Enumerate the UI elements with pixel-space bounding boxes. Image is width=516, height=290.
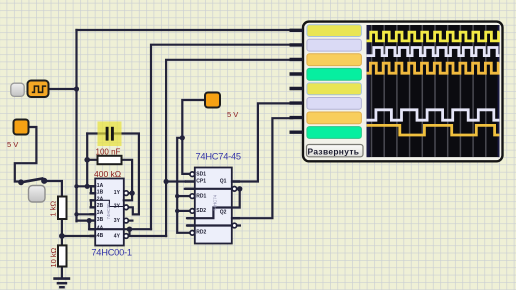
svg-text:SD1: SD1: [196, 171, 206, 177]
resistor R2 10k body: [58, 245, 67, 266]
svg-text:RD1: RD1: [196, 193, 206, 199]
wire 5V1 to switch: [15, 127, 37, 182]
node A tee on vertical: [74, 184, 78, 188]
U2 left pin stubs: [185, 174, 195, 233]
resistor R3 400k body: [98, 156, 122, 164]
node CLK junction (clock output / scope ch1 net): [74, 86, 79, 91]
svg-text:74HC74: 74HC74: [213, 194, 218, 211]
wire Q1# to CP2 route: [187, 189, 240, 218]
svg-text:5 V: 5 V: [7, 140, 18, 149]
node S junction at pin 3B: [87, 218, 92, 223]
IC U1 74HC00 body fill: [95, 179, 124, 246]
trace ch3 (amber fast): [367, 63, 500, 73]
U1 left pin stubs: [90, 186, 96, 236]
svg-text:2Y: 2Y: [114, 204, 121, 210]
wire SD2 stub: [177, 210, 190, 212]
node CP1 junction: [164, 179, 169, 184]
node 5V junction: [180, 135, 185, 140]
channel bar 7: [307, 112, 362, 124]
wire 3B row: [77, 221, 90, 230]
ground: [53, 279, 70, 288]
svg-text:10 kΩ: 10 kΩ: [49, 247, 58, 267]
U2 left bubbles: [190, 172, 195, 235]
wire ch2 to scope: [151, 45, 292, 230]
node A junction (R3/C1 left): [84, 157, 90, 163]
wire switch to R1: [44, 181, 62, 197]
trace ch1 (yellow fast): [367, 32, 500, 41]
scope pin stubs: [290, 30, 304, 132]
node T junction (R1/R2 divider tap): [59, 233, 65, 239]
wire 5V2 to SD1: [182, 100, 205, 174]
wire cap right lead to 2Y net: [114, 134, 139, 215]
wire 1A row: [77, 185, 96, 187]
U1 internal divider step: [95, 200, 124, 206]
svg-text:4A: 4A: [97, 226, 104, 232]
trace ch2 (white fast): [367, 48, 500, 56]
svg-text:74HC00: 74HC00: [106, 203, 111, 220]
expand button: [307, 145, 364, 157]
node A junction at pin 1A: [85, 184, 90, 189]
node S tee at pin 3A: [74, 212, 78, 216]
wire 5V branch to RD1 SD2 RD2: [177, 138, 190, 233]
voltage probe gray box (top-left): [11, 83, 24, 96]
svg-text:Развернуть: Развернуть: [308, 146, 360, 156]
U2 right stubs: [232, 182, 240, 219]
wire 1B step: [91, 186, 95, 193]
wire node A vertical: [86, 134, 88, 187]
wire ch3 to scope: [166, 60, 292, 236]
svg-text:CP1: CP1: [196, 179, 206, 185]
svg-text:1A: 1A: [97, 183, 104, 189]
U1 pin labels: [97, 183, 121, 239]
power terminal 5V #2: [205, 93, 220, 108]
wire ch1 vertical x=77.5: [75, 30, 77, 221]
svg-text:1B: 1B: [97, 190, 104, 196]
wire 1Y junction hook: [124, 193, 132, 200]
svg-text:Q1: Q1: [220, 179, 227, 185]
IC U2 74HC74 body fill: [195, 168, 232, 244]
wire CP1 branch: [166, 180, 185, 182]
scope screen: [367, 25, 500, 157]
switch lever: [19, 178, 47, 185]
svg-text:4B: 4B: [97, 233, 104, 239]
channel bar 2: [307, 39, 362, 51]
screen grid lines: [372, 25, 486, 157]
wire 4A row crossing: [89, 228, 151, 230]
U2 pin labels: [196, 171, 226, 235]
svg-text:RD2: RD2: [196, 230, 206, 236]
channel bar 4: [307, 68, 362, 80]
wire Q1 to scope ch6: [232, 103, 292, 181]
wire 3A row: [77, 213, 96, 215]
svg-text:74HC00-1: 74HC00-1: [91, 247, 131, 257]
switch toggle gray box: [29, 186, 46, 203]
trace ch7 (amber slow): [367, 125, 500, 135]
U1 output bubbles and stubs: [124, 191, 129, 239]
wire 2A row stub step: [90, 200, 92, 207]
wire junction to 4B: [62, 235, 95, 237]
wire Q2 to scope ch7: [232, 118, 292, 218]
oscilloscope window: [303, 22, 503, 162]
svg-text:74HC74-45: 74HC74-45: [196, 152, 241, 162]
node 5V junction at RD1: [175, 194, 179, 198]
wire 4Y to ch3 net: [129, 229, 167, 236]
IC U1 74HC00 border: [95, 179, 124, 246]
IC U2 74HC74 border: [195, 168, 232, 244]
svg-text:2A: 2A: [97, 196, 104, 202]
trace ch6 (white slow): [367, 110, 500, 120]
svg-text:5 V: 5 V: [227, 110, 238, 119]
wire ch1 horizontal to scope: [77, 29, 293, 31]
svg-text:1Y: 1Y: [114, 190, 121, 196]
svg-text:SD2: SD2: [196, 208, 206, 214]
clock generator: [28, 81, 49, 98]
wire 2Y step route: [128, 207, 139, 214]
power terminal 5V #1: [14, 120, 29, 135]
U2 right bubbles: [232, 187, 237, 228]
wire RD1 stub: [177, 195, 190, 197]
svg-text:3Y: 3Y: [114, 218, 121, 224]
capacitor highlight: [98, 122, 122, 147]
svg-text:3B: 3B: [97, 217, 104, 223]
svg-text:400 kΩ: 400 kΩ: [94, 169, 121, 179]
wire cap left lead: [87, 132, 105, 134]
node 4Y junction: [127, 227, 132, 232]
svg-text:Q2: Q2: [220, 210, 227, 216]
wire R1 to junction to R2: [61, 219, 63, 245]
channel bar 3: [307, 54, 362, 66]
svg-text:3A: 3A: [97, 210, 104, 216]
channel bar 1: [307, 25, 362, 37]
wire R3 right lead down to 1Y: [122, 160, 133, 193]
channel bar 8: [307, 127, 362, 139]
node Q1# junction at D1: [237, 186, 242, 191]
capacitor C1 plates: [107, 127, 112, 141]
node B junction at pin 1Y: [129, 190, 134, 195]
wire D1 feedback crossing: [185, 188, 240, 190]
node 5V junction at SD2: [175, 209, 179, 213]
wire R3 left lead: [87, 159, 97, 161]
wire D2 feedback crossing: [187, 224, 240, 226]
channel bar 6: [307, 98, 362, 110]
resistor R1 1k body: [58, 197, 67, 220]
wire R2 to ground: [61, 267, 63, 279]
wire clock to node: [49, 88, 77, 90]
svg-text:4Y: 4Y: [114, 234, 121, 240]
svg-text:2B: 2B: [97, 203, 104, 209]
svg-text:1 kΩ: 1 kΩ: [49, 200, 58, 216]
channel bar 5: [307, 83, 362, 95]
